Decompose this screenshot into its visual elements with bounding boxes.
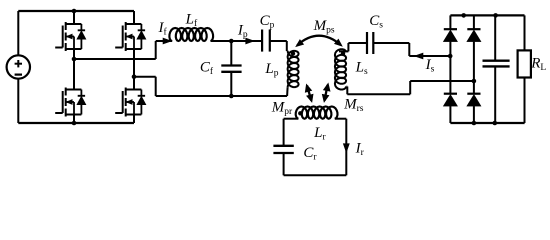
svg-text:Is: Is — [425, 57, 435, 75]
svg-text:Cr: Cr — [303, 145, 317, 163]
svg-text:RL: RL — [530, 56, 546, 74]
svg-text:If: If — [158, 20, 168, 38]
svg-text:Cs: Cs — [369, 13, 383, 31]
svg-text:Lf: Lf — [185, 12, 198, 30]
svg-text:Mrs: Mrs — [343, 97, 364, 115]
svg-text:Cf: Cf — [200, 60, 214, 78]
svg-text:Lp: Lp — [264, 61, 278, 79]
svg-text:Cp: Cp — [260, 13, 275, 31]
svg-text:Ls: Ls — [355, 59, 368, 77]
svg-text:Mpr: Mpr — [271, 100, 293, 118]
svg-text:Ip: Ip — [237, 23, 248, 41]
svg-text:Mps: Mps — [313, 18, 335, 36]
svg-text:Ir: Ir — [355, 141, 365, 159]
svg-text:Lr: Lr — [313, 125, 326, 143]
